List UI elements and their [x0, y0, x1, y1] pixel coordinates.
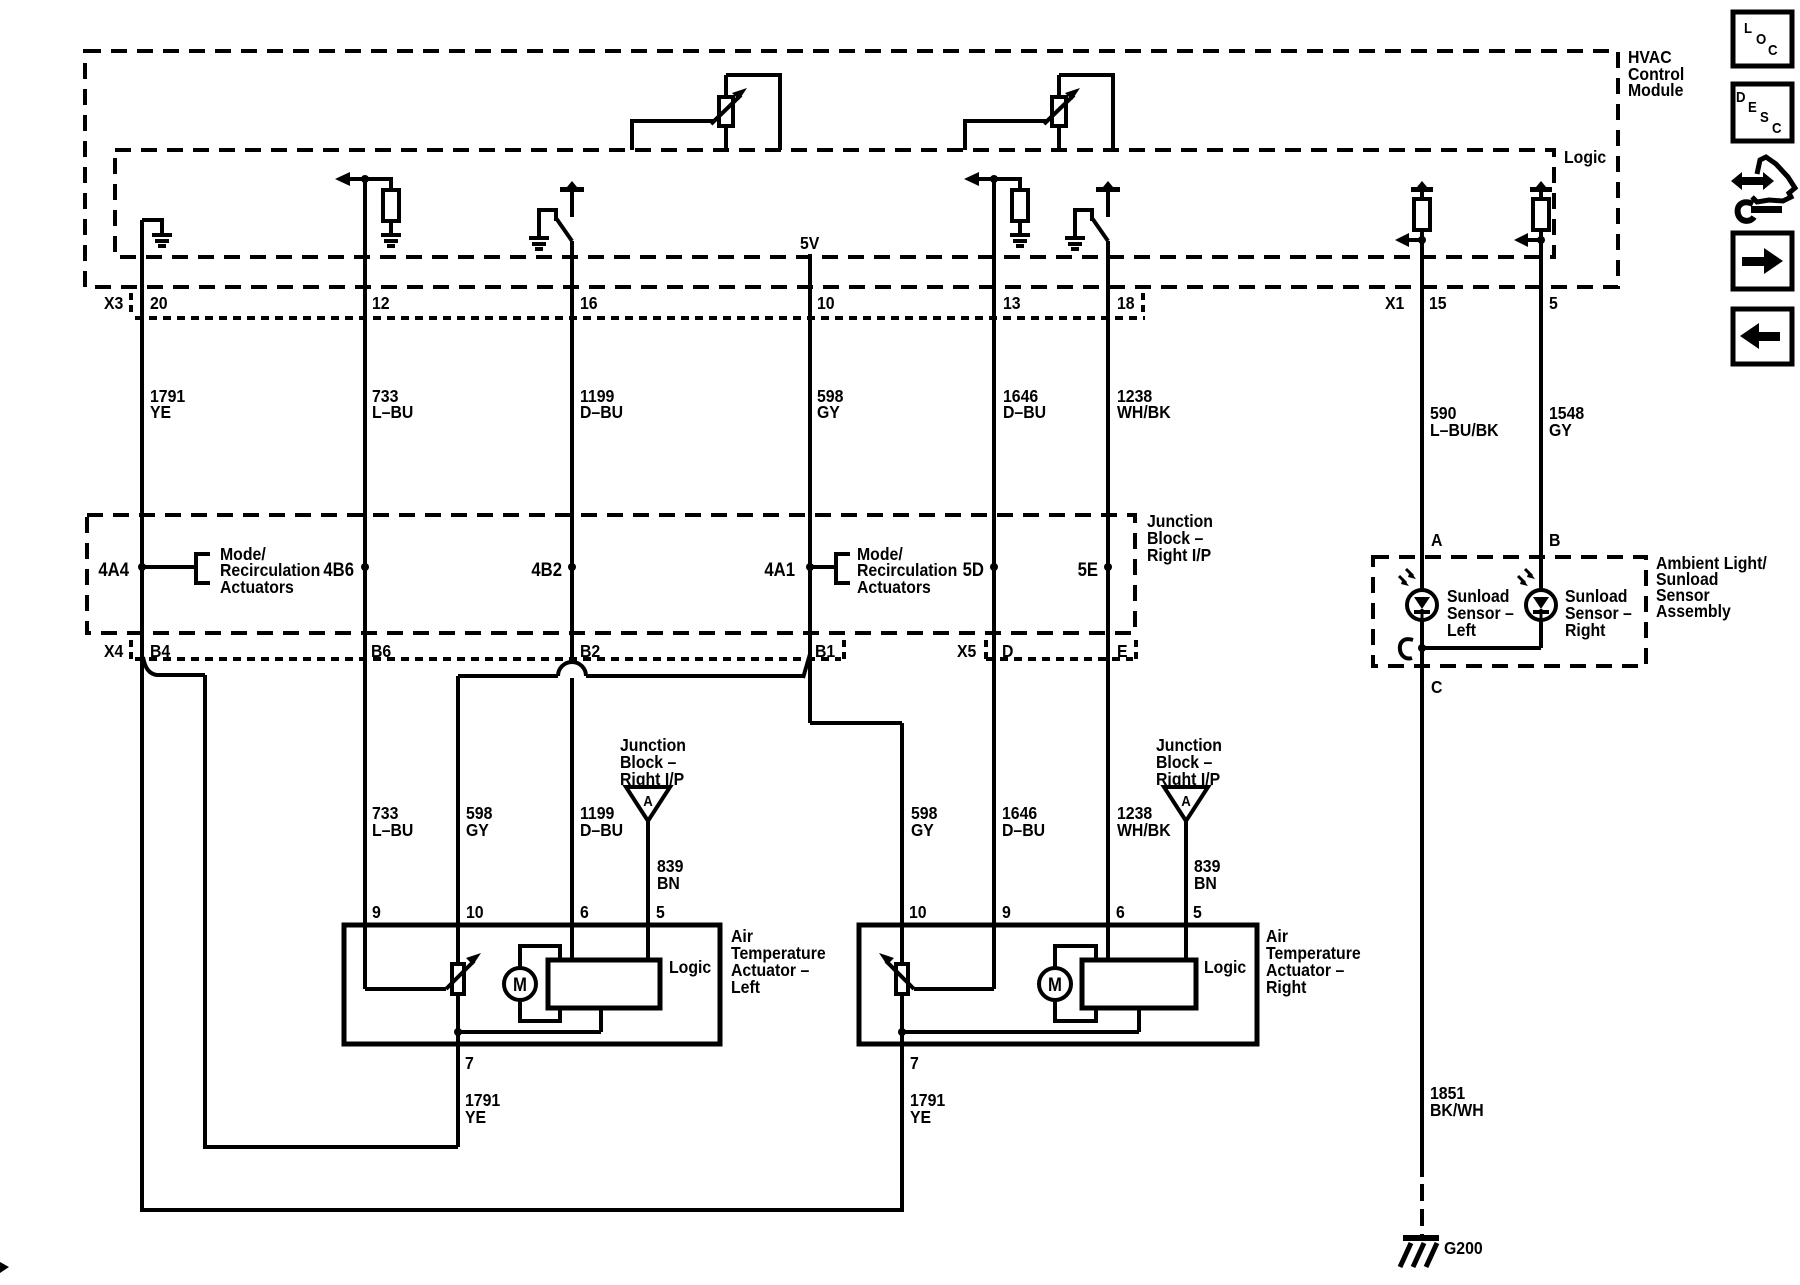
- svg-text:5V: 5V: [800, 233, 820, 253]
- svg-text:4B2: 4B2: [531, 559, 562, 580]
- svg-text:BN: BN: [1194, 873, 1217, 893]
- svg-text:E: E: [1748, 98, 1757, 115]
- svg-text:C: C: [1431, 677, 1442, 697]
- svg-text:Right I/P: Right I/P: [620, 769, 684, 789]
- svg-text:Left: Left: [731, 977, 760, 997]
- svg-text:9: 9: [372, 902, 381, 922]
- svg-text:A: A: [643, 792, 653, 809]
- svg-text:O: O: [1756, 30, 1766, 47]
- svg-text:B6: B6: [371, 641, 391, 661]
- svg-text:WH/BK: WH/BK: [1117, 820, 1171, 840]
- svg-text:GY: GY: [466, 820, 490, 840]
- svg-text:10: 10: [909, 902, 927, 922]
- svg-text:16: 16: [580, 293, 598, 313]
- svg-text:D: D: [1002, 641, 1013, 661]
- svg-text:S: S: [1760, 108, 1769, 125]
- svg-text:Actuators: Actuators: [220, 577, 294, 597]
- svg-text:5: 5: [656, 902, 665, 922]
- svg-text:13: 13: [1003, 293, 1021, 313]
- svg-text:9: 9: [1002, 902, 1011, 922]
- svg-text:Logic: Logic: [1564, 147, 1606, 167]
- svg-text:10: 10: [466, 902, 484, 922]
- svg-text:B4: B4: [150, 641, 171, 661]
- svg-text:B2: B2: [580, 641, 600, 661]
- svg-text:Assembly: Assembly: [1656, 601, 1731, 621]
- svg-text:BK/WH: BK/WH: [1430, 1100, 1484, 1120]
- svg-text:D–BU: D–BU: [1002, 820, 1045, 840]
- svg-text:Left: Left: [1447, 620, 1476, 640]
- svg-text:L–BU: L–BU: [372, 402, 413, 422]
- svg-text:C: C: [1768, 41, 1778, 58]
- svg-text:Actuators: Actuators: [857, 577, 931, 597]
- svg-text:Logic: Logic: [669, 957, 711, 977]
- svg-text:Module: Module: [1628, 80, 1683, 100]
- svg-text:BN: BN: [657, 873, 680, 893]
- svg-text:5E: 5E: [1078, 559, 1098, 580]
- svg-text:D: D: [1736, 88, 1746, 105]
- svg-text:B1: B1: [815, 641, 835, 661]
- svg-text:6: 6: [580, 902, 589, 922]
- svg-text:10: 10: [817, 293, 835, 313]
- svg-text:D–BU: D–BU: [580, 402, 623, 422]
- svg-text:7: 7: [465, 1053, 474, 1073]
- svg-text:5D: 5D: [963, 559, 984, 580]
- svg-text:Right: Right: [1565, 620, 1606, 640]
- svg-text:GY: GY: [911, 820, 935, 840]
- svg-text:M: M: [1048, 974, 1062, 995]
- svg-text:Right I/P: Right I/P: [1156, 769, 1220, 789]
- svg-text:WH/BK: WH/BK: [1117, 402, 1171, 422]
- svg-text:X4: X4: [104, 641, 124, 661]
- svg-text:Right: Right: [1266, 977, 1307, 997]
- svg-text:20: 20: [150, 293, 168, 313]
- svg-text:Logic: Logic: [1204, 957, 1246, 977]
- svg-text:M: M: [513, 974, 527, 995]
- svg-text:GY: GY: [1549, 420, 1573, 440]
- svg-text:5: 5: [1549, 293, 1558, 313]
- svg-text:G200: G200: [1444, 1238, 1483, 1258]
- svg-text:5: 5: [1193, 902, 1202, 922]
- svg-text:YE: YE: [465, 1107, 486, 1127]
- svg-text:A: A: [1431, 530, 1442, 550]
- svg-text:Right I/P: Right I/P: [1147, 545, 1211, 565]
- svg-text:A: A: [1181, 792, 1191, 809]
- svg-text:X3: X3: [104, 293, 123, 313]
- svg-text:YE: YE: [150, 402, 171, 422]
- svg-text:6: 6: [1116, 902, 1125, 922]
- svg-text:X1: X1: [1385, 293, 1404, 313]
- svg-text:4B6: 4B6: [323, 559, 354, 580]
- svg-text:4A1: 4A1: [764, 559, 795, 580]
- svg-text:D–BU: D–BU: [1003, 402, 1046, 422]
- svg-text:C: C: [1772, 119, 1782, 136]
- svg-text:L–BU: L–BU: [372, 820, 413, 840]
- svg-text:D–BU: D–BU: [580, 820, 623, 840]
- svg-text:L: L: [1744, 19, 1752, 36]
- svg-text:YE: YE: [910, 1107, 931, 1127]
- svg-text:B: B: [1549, 530, 1560, 550]
- svg-text:GY: GY: [817, 402, 841, 422]
- svg-text:X5: X5: [957, 641, 976, 661]
- svg-text:12: 12: [372, 293, 390, 313]
- svg-text:L–BU/BK: L–BU/BK: [1430, 420, 1499, 440]
- svg-text:18: 18: [1117, 293, 1135, 313]
- svg-text:15: 15: [1429, 293, 1447, 313]
- svg-text:4A4: 4A4: [98, 559, 129, 580]
- svg-text:7: 7: [910, 1053, 919, 1073]
- svg-text:E: E: [1117, 641, 1128, 661]
